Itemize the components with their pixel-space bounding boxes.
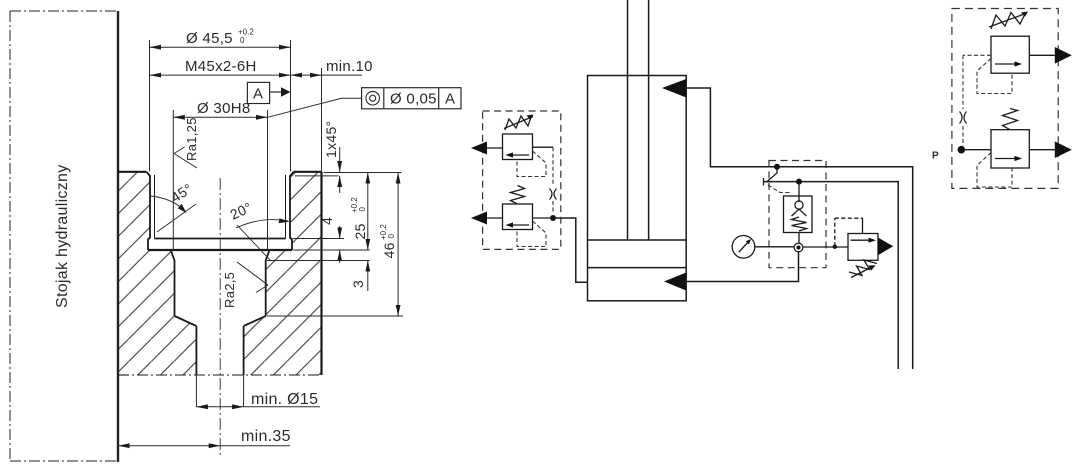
svg-text:46: 46	[381, 242, 397, 258]
svg-text:Ra1,25: Ra1,25	[184, 117, 199, 161]
svg-text:0: 0	[387, 234, 396, 239]
svg-text:min.35: min.35	[241, 428, 291, 445]
svg-text:A: A	[445, 91, 455, 108]
svg-text:0: 0	[240, 36, 245, 45]
svg-text:M45x2-6H: M45x2-6H	[185, 58, 257, 75]
svg-text:25: 25	[352, 223, 368, 239]
svg-text:Stojak hydrauliczny: Stojak hydrauliczny	[54, 164, 71, 308]
svg-text:Ra2,5: Ra2,5	[222, 272, 237, 308]
svg-text:A: A	[253, 86, 263, 103]
svg-text:min. Ø15: min. Ø15	[251, 391, 318, 408]
svg-text:3: 3	[350, 280, 366, 288]
svg-text:min.10: min.10	[326, 58, 373, 75]
svg-text:0: 0	[358, 207, 367, 212]
svg-text:4: 4	[319, 217, 335, 225]
svg-text:Ø 30H8: Ø 30H8	[197, 100, 251, 117]
svg-text:Ø 45,5: Ø 45,5	[186, 30, 233, 47]
svg-text:P: P	[932, 151, 939, 162]
svg-text:Ø 0,05: Ø 0,05	[390, 91, 437, 108]
svg-text:1x45°: 1x45°	[323, 121, 339, 158]
